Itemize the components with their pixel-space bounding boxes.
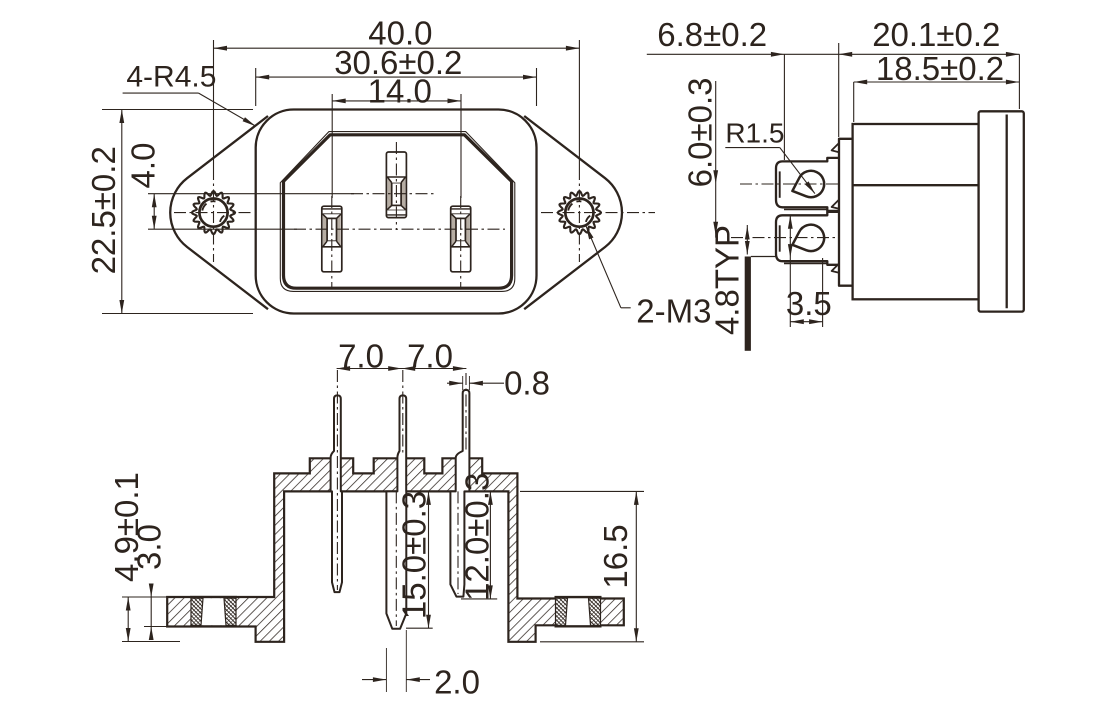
- svg-text:6.8±0.2: 6.8±0.2: [657, 16, 767, 53]
- svg-text:0.8: 0.8: [504, 365, 550, 402]
- svg-text:R1.5: R1.5: [725, 117, 784, 148]
- svg-text:6.0±0.3: 6.0±0.3: [682, 77, 719, 187]
- svg-text:4-R4.5: 4-R4.5: [126, 60, 216, 93]
- svg-text:12.0±0.3: 12.0±0.3: [458, 473, 495, 601]
- svg-text:2-M3: 2-M3: [636, 292, 711, 329]
- svg-text:18.5±0.2: 18.5±0.2: [876, 50, 1004, 87]
- svg-text:4.8TYP: 4.8TYP: [709, 225, 746, 335]
- svg-text:3.0: 3.0: [131, 524, 168, 570]
- svg-text:3.5: 3.5: [786, 285, 832, 322]
- svg-text:22.5±0.2: 22.5±0.2: [85, 146, 122, 274]
- svg-text:7.0: 7.0: [407, 338, 453, 375]
- svg-text:14.0: 14.0: [368, 72, 432, 109]
- svg-text:2.0: 2.0: [434, 664, 480, 701]
- svg-text:16.5: 16.5: [597, 524, 634, 588]
- svg-text:20.1±0.2: 20.1±0.2: [872, 16, 1000, 53]
- svg-text:4.0: 4.0: [125, 143, 162, 189]
- svg-text:7.0: 7.0: [338, 338, 384, 375]
- svg-text:15.0±0.3: 15.0±0.3: [396, 491, 433, 619]
